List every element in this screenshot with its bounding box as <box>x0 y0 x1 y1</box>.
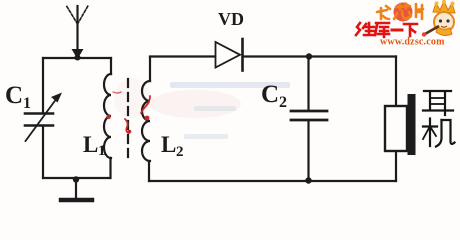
机 <box>423 125 437 127</box>
wire right upper <box>395 57 397 107</box>
wire top-right to diode <box>150 55 215 57</box>
earphone <box>385 94 416 155</box>
antenna <box>66 5 89 59</box>
库 <box>375 23 389 37</box>
wire bottom-left <box>43 177 110 179</box>
svg-text:1: 1 <box>98 143 106 159</box>
芯 <box>394 4 411 20</box>
wire left upper <box>42 58 44 113</box>
wire diode to right <box>243 55 396 57</box>
wire C2 upper <box>307 57 309 111</box>
transformer core <box>127 79 129 160</box>
label C2 <box>261 81 287 111</box>
wire bottom-right <box>149 180 396 182</box>
node bottom C2 junction <box>305 177 311 183</box>
片 <box>416 4 423 19</box>
watermark 维库一下 <box>356 23 417 37</box>
一 <box>392 29 402 32</box>
faint blue watermark text band 3 <box>184 134 228 139</box>
label 耳机 (drawn strokes) <box>423 91 455 147</box>
capacitor C1 <box>25 93 62 142</box>
svg-text:C: C <box>5 82 23 109</box>
耳 <box>424 90 451 92</box>
node antenna junction <box>75 55 81 61</box>
wire left lower <box>42 126 44 178</box>
svg-text:2: 2 <box>279 94 287 111</box>
svg-text:2: 2 <box>176 144 184 160</box>
ground <box>61 176 92 200</box>
faint pink smudge watermark remnant <box>149 90 241 118</box>
node top C2 junction <box>306 53 312 59</box>
svg-text:www.dzsc.com: www.dzsc.com <box>380 37 445 48</box>
faint blue watermark text band 2 <box>194 106 236 111</box>
label L1 <box>83 132 106 159</box>
watermark mascot <box>422 0 455 37</box>
svg-text:C: C <box>261 81 279 108</box>
svg-text:L: L <box>83 132 98 157</box>
capacitor C2 <box>291 111 327 120</box>
watermark logo 找芯片 <box>377 3 423 22</box>
label C1 <box>5 82 31 112</box>
wire right lower <box>395 151 397 181</box>
wire top-left <box>43 57 111 59</box>
inductor L1 <box>104 58 111 178</box>
svg-text:L: L <box>161 132 176 157</box>
维 <box>356 23 375 35</box>
diode VD <box>216 39 243 71</box>
svg-text:1: 1 <box>23 95 31 112</box>
inductor L2 <box>142 57 150 181</box>
wire C2 lower <box>307 121 309 181</box>
下 <box>404 24 417 36</box>
faint blue watermark text band 1 <box>170 82 290 88</box>
找 <box>377 6 390 19</box>
label L2 <box>161 132 184 160</box>
svg-text:VD: VD <box>218 9 244 29</box>
red watermark squiggle on transformer <box>106 92 150 133</box>
